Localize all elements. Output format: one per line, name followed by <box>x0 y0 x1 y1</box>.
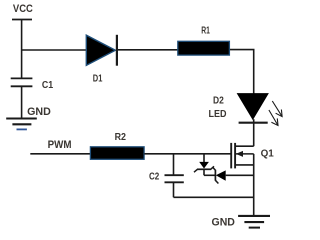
power rail VCC (T-bar) <box>12 19 32 21</box>
resistor R1 <box>178 41 230 55</box>
C1 label <box>42 79 53 91</box>
svg-text:LED: LED <box>209 108 227 120</box>
zener diode ZD1 (gate protection, pointing down) <box>194 154 214 176</box>
wire LED cathode to Q1 drain <box>253 119 255 146</box>
ground (right) <box>238 216 270 228</box>
wire Q1 source to right ground <box>253 154 255 216</box>
VCC label <box>13 3 33 15</box>
LED label <box>209 108 227 120</box>
D2 label <box>213 94 224 106</box>
wire ZD1 to ZD2 <box>204 174 215 176</box>
capacitor C2 <box>165 175 184 182</box>
wire R2 to Q1 gate <box>144 153 231 155</box>
svg-text:VCC: VCC <box>13 3 33 15</box>
wire PWM input to R2 <box>30 153 90 155</box>
GND label (left) <box>27 106 51 118</box>
svg-text:PWM: PWM <box>48 139 72 151</box>
R2 label <box>115 131 127 143</box>
transistor Q1 (N-channel MOSFET) <box>231 143 254 169</box>
C2 label <box>149 171 159 183</box>
D1 label <box>93 73 103 85</box>
PWM label <box>48 139 72 151</box>
wire VCC node to D1 anode <box>22 49 87 51</box>
ground (left) <box>6 119 37 130</box>
wire ZD2 to Q1 source <box>226 174 254 176</box>
wire C1 to left ground <box>21 86 23 118</box>
wire bottom rail (C2 to source) <box>174 196 254 198</box>
svg-text:D2: D2 <box>213 94 224 106</box>
svg-text:GND: GND <box>212 216 235 228</box>
wire C2 down to bottom rail <box>173 182 175 197</box>
svg-text:C2: C2 <box>149 171 159 183</box>
wire R1 to LED D2 anode <box>230 50 254 94</box>
svg-text:R1: R1 <box>201 25 210 37</box>
LED light emission arrows <box>269 101 282 126</box>
Q1 label <box>261 148 274 160</box>
svg-text:Q1: Q1 <box>261 148 274 160</box>
diode D1 <box>86 35 117 66</box>
capacitor C1 <box>11 78 33 86</box>
wire VCC rail down to C1 <box>21 20 23 79</box>
resistor R2 <box>90 147 144 160</box>
LED D2 <box>238 94 269 123</box>
GND label (right) <box>212 216 235 228</box>
wire gate node down to C2 <box>173 154 175 175</box>
svg-text:D1: D1 <box>93 73 103 85</box>
svg-text:C1: C1 <box>42 79 53 91</box>
svg-text:GND: GND <box>27 106 51 118</box>
zener diode ZD2 (pointing left) <box>212 167 225 184</box>
R1 label <box>201 25 210 37</box>
wire D1 cathode to R1 <box>117 49 178 51</box>
svg-text:R2: R2 <box>115 131 127 143</box>
